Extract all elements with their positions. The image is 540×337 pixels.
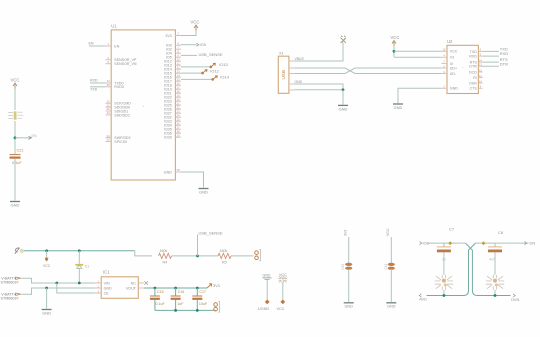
wire cap ground rail: [155, 309, 216, 311]
svg-text:C15: C15: [157, 290, 164, 294]
ground (C14): [386, 302, 396, 304]
svg-text:38: 38: [177, 168, 181, 172]
connector JP1: [255, 250, 261, 261]
svg-text:VCC: VCC: [191, 20, 200, 25]
capacitor C17 10uF: [196, 288, 198, 296]
svg-text:10: 10: [479, 79, 483, 83]
U1 left pins: [106, 45, 112, 47]
wire crossover right-to-bottom-left: [463, 243, 475, 295]
svg-text:35: 35: [107, 83, 111, 87]
svg-text:160k: 160k: [220, 249, 228, 253]
svg-text:RXD0: RXD0: [114, 85, 124, 89]
svg-text:TXD: TXD: [90, 88, 98, 92]
net flag DVN: [513, 294, 515, 297]
wire V-BATT+: [21, 278, 96, 283]
U1 GND pin: [175, 171, 181, 173]
svg-text:C8: C8: [498, 230, 504, 235]
wire + flag IO14: [181, 78, 213, 80]
svg-text:SHD/SD2: SHD/SD2: [114, 113, 130, 117]
wire TXD: [90, 86, 106, 88]
svg-text:STM6601F: STM6601F: [1, 280, 20, 284]
svg-text:IO12: IO12: [210, 68, 219, 73]
wire VOUT rail: [138, 287, 144, 289]
wire: [14, 159, 16, 201]
spark gap SP2: [435, 275, 453, 290]
connector JP2: [215, 309, 217, 311]
wire IO0 flag: [181, 44, 197, 46]
wire: [282, 283, 284, 300]
svg-text:GND: GND: [42, 310, 51, 315]
net flag AVD: [419, 294, 421, 297]
wire bottom-right rail: [494, 294, 497, 297]
svg-text:0.1uF: 0.1uF: [12, 161, 22, 165]
svg-text:C14: C14: [384, 263, 388, 269]
svg-text:C17: C17: [199, 290, 206, 294]
svg-text:USB_SENSE: USB_SENSE: [199, 231, 223, 236]
svg-text:CTS: CTS: [470, 87, 478, 91]
wire V3: [394, 56, 441, 58]
svg-text:C16: C16: [178, 290, 185, 294]
wires TXD/RXD/RTS/DTR: [483, 50, 499, 52]
svg-text:GND: GND: [339, 106, 348, 111]
svg-text:SENSOR_VN: SENSOR_VN: [114, 62, 137, 66]
svg-text:VCC: VCC: [43, 264, 51, 268]
wire + flag IO12: [181, 72, 203, 74]
bead L1: [448, 241, 452, 245]
svg-text:VCC: VCC: [279, 273, 287, 277]
wire right line: [475, 242, 528, 244]
svg-text:3V3: 3V3: [213, 284, 220, 288]
svg-text:16: 16: [442, 48, 446, 52]
svg-text:V3: V3: [450, 56, 454, 60]
capacitor C7: [443, 243, 445, 247]
wire + flag IO13: [181, 66, 211, 68]
ground (U1): [199, 188, 209, 190]
svg-text:EN: EN: [114, 44, 119, 48]
svg-text:RI: RI: [473, 76, 477, 80]
wire crossover left-to-bottom-right: [466, 243, 511, 295]
svg-text:DTR: DTR: [469, 65, 477, 69]
svg-text:U1: U1: [111, 23, 117, 28]
wire top rail: [24, 250, 135, 252]
wire: [172, 255, 219, 257]
wire VBUS + flag: [295, 43, 344, 62]
svg-text:AVD: AVD: [419, 298, 427, 302]
svg-text:>: >: [143, 104, 145, 108]
svg-text:NC: NC: [131, 281, 137, 285]
wire U2 GND: [398, 88, 441, 103]
svg-text:DVN: DVN: [511, 298, 519, 302]
wire D+ (crossover): [295, 68, 442, 74]
ground (battery): [42, 309, 52, 311]
svg-text:C13: C13: [341, 263, 345, 269]
wire: [14, 89, 16, 111]
svg-text:DTR: DTR: [500, 61, 508, 66]
svg-text:IC1: IC1: [103, 270, 110, 275]
svg-text:DSR: DSR: [469, 81, 477, 85]
svg-text:UD+: UD+: [450, 66, 457, 70]
svg-text:RXD: RXD: [469, 55, 477, 59]
node USB_SENSE: [196, 255, 199, 258]
svg-text:GND: GND: [450, 87, 458, 91]
svg-text:GND: GND: [394, 105, 403, 110]
svg-text:VBUS: VBUS: [295, 57, 305, 61]
resistor R4 160k: [159, 253, 172, 258]
svg-text:VCC: VCC: [391, 35, 400, 40]
node: [78, 249, 81, 252]
node: [45, 249, 48, 252]
wire RXD: [90, 82, 106, 84]
svg-text:R5: R5: [222, 260, 227, 264]
svg-text:~: ~: [462, 66, 464, 70]
svg-text:X1: X1: [279, 52, 284, 56]
node USB gnd junction: [342, 88, 345, 91]
svg-text:4n7: 4n7: [489, 258, 495, 262]
wire EN to U1: [89, 45, 106, 47]
svg-text:D1: D1: [85, 264, 90, 268]
ferrite bead FB1: [14, 111, 17, 119]
svg-text:0.1uF: 0.1uF: [156, 302, 166, 306]
svg-text:3V3: 3V3: [344, 230, 348, 236]
svg-text:11: 11: [479, 74, 482, 78]
ground (C13): [344, 302, 354, 304]
svg-text:R4: R4: [163, 260, 168, 264]
wire V-BATT-: [21, 288, 96, 294]
test pad E2: [280, 300, 285, 305]
svg-text:1uF: 1uF: [177, 302, 184, 306]
wire: [231, 255, 254, 257]
svg-text:USB_SENSE: USB_SENSE: [199, 52, 223, 57]
svg-text:IO0: IO0: [200, 42, 207, 47]
ground (U2): [393, 103, 403, 105]
svg-text:C7: C7: [449, 227, 455, 232]
svg-text:U2: U2: [447, 39, 453, 44]
zener diode D1: [78, 251, 80, 264]
net flag DN: [525, 242, 527, 245]
capacitor C8: [494, 243, 496, 247]
svg-text:RXD: RXD: [90, 79, 98, 83]
svg-text:GND: GND: [295, 80, 303, 84]
svg-text:GND: GND: [263, 274, 271, 278]
wire U1 GND: [181, 172, 204, 188]
svg-text:DN: DN: [530, 240, 536, 245]
svg-text:25: 25: [107, 138, 111, 142]
U1 right pins: [175, 35, 181, 37]
svg-text:RXD: RXD: [500, 51, 509, 56]
svg-text:SPICS0: SPICS0: [114, 140, 127, 144]
svg-text:160k: 160k: [160, 249, 168, 253]
resistor R5 160k: [218, 253, 231, 258]
flag 3V3 output: [207, 284, 212, 288]
svg-text:3V3: 3V3: [165, 34, 171, 38]
ground (left chain): [10, 201, 20, 203]
svg-text:UD-: UD-: [450, 72, 457, 76]
U2 right pins: [478, 50, 482, 52]
svg-text:VCC: VCC: [386, 228, 390, 236]
node EN stub: [14, 136, 17, 139]
svg-text:IO39: IO39: [164, 136, 172, 140]
NC pin x: [138, 282, 144, 284]
U2 left pins: [441, 50, 447, 52]
wire VCC to U2: [393, 46, 395, 57]
power symbol VCC (down): [46, 251, 48, 258]
bead L2: [482, 241, 486, 245]
svg-text:GND: GND: [164, 170, 172, 174]
svg-text:VCC: VCC: [450, 50, 458, 54]
wire D- (crossover): [295, 68, 442, 74]
net flag IO8: [420, 242, 422, 245]
svg-text:C21: C21: [17, 149, 24, 153]
wire EN tie: [57, 283, 96, 293]
svg-text:GND: GND: [11, 202, 20, 207]
capacitor C16 1uF: [175, 288, 177, 296]
wire bottom-left rail: [427, 295, 465, 297]
svg-text:GND: GND: [344, 305, 353, 309]
svg-text:13: 13: [479, 63, 483, 67]
wire left line: [429, 242, 466, 244]
svg-text:EN: EN: [32, 134, 37, 138]
svg-text:STM6601F: STM6601F: [1, 296, 20, 300]
svg-text:USB: USB: [281, 70, 286, 79]
svg-text:GND: GND: [387, 305, 396, 309]
wire step: [135, 251, 152, 256]
test pad E1: [265, 300, 270, 305]
svg-text:IO14: IO14: [220, 75, 229, 80]
svg-text:29: 29: [177, 133, 181, 137]
svg-text:GND: GND: [104, 286, 112, 290]
svg-text:XI: XI: [450, 62, 453, 66]
svg-text:12: 12: [479, 68, 483, 72]
svg-text:10uF: 10uF: [199, 302, 208, 306]
wire USB_SENSE: [181, 54, 197, 56]
svg-text:EN: EN: [89, 42, 94, 46]
wire: [14, 121, 16, 154]
svg-text:VIN: VIN: [104, 281, 110, 285]
svg-text:GND: GND: [199, 189, 208, 194]
svg-text:DCD: DCD: [469, 70, 477, 74]
capacitor C15 0.1uF: [154, 288, 156, 296]
wire 3V3 to VCC: [181, 31, 196, 36]
svg-text:VCC: VCC: [11, 78, 20, 83]
wire: [266, 280, 268, 300]
svg-text:IO13: IO13: [219, 62, 228, 67]
svg-text:1/GND: 1/GND: [258, 307, 270, 311]
svg-text:VOUT: VOUT: [126, 286, 137, 290]
svg-text:TXD: TXD: [470, 50, 478, 54]
node + wire to ground: [45, 287, 48, 290]
svg-text:CE: CE: [104, 291, 110, 295]
wire USB GND/shield: [295, 84, 344, 90]
net flag 5V input: [15, 248, 20, 254]
svg-text:VCC: VCC: [277, 307, 285, 311]
ground (USB): [338, 104, 348, 106]
svg-text:23: 23: [107, 111, 111, 115]
spark gap SP3: [486, 275, 504, 290]
